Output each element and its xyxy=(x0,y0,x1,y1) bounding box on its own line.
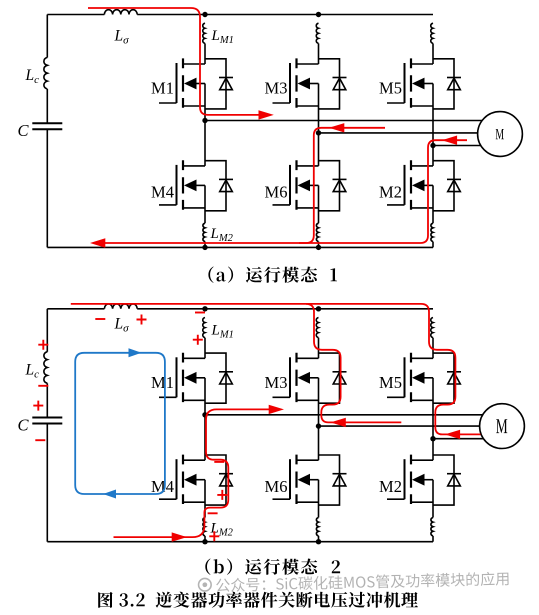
wire drain lead M3 (fig a) xyxy=(318,43,320,64)
mosfet M1 with body diode (fig b) xyxy=(159,353,233,404)
node bottom rail junction leg 1 (fig a) xyxy=(202,245,207,250)
wire source lead M6 to coil (fig a) xyxy=(318,185,320,223)
wire left rail lower segment (fig a) xyxy=(46,129,48,247)
parasitic inductor top of leg 2 (fig b) xyxy=(316,318,318,338)
mosfet M2 with body diode (fig a) xyxy=(387,160,461,211)
wire coil to bottom rail leg 2 (fig a) xyxy=(318,242,320,248)
label M5 (fig a) xyxy=(379,79,402,98)
wire coil to bottom rail leg 3 (fig b) xyxy=(432,536,434,542)
parasitic inductor bottom of leg 2 (fig b) xyxy=(316,518,318,536)
current arrow phase A pointing right (fig a) xyxy=(259,110,274,119)
wire top DC bus rail (fig a) xyxy=(47,14,433,16)
wire source lead M6 to coil (fig b) xyxy=(318,480,320,518)
wire source lead M4 to coil (fig b) xyxy=(204,480,206,518)
parasitic inductor top of leg 3 (fig b) xyxy=(431,318,433,338)
wire source lead M2 to coil (fig b) xyxy=(432,480,434,518)
wire drain lead M4 (fig b) xyxy=(204,415,206,460)
wire drain lead M1 (fig b) xyxy=(204,338,206,359)
parasitic inductor top of leg 2 (fig a) xyxy=(316,23,318,43)
parasitic inductor top of leg 3 (fig a) xyxy=(431,23,433,43)
label M5 (fig b) xyxy=(379,373,402,392)
node top rail junction leg 1 (fig b) xyxy=(202,306,207,311)
inductor L_M2 parasitic, leg 1 (fig a) xyxy=(203,223,234,244)
label M4 (fig b) xyxy=(151,477,174,496)
inductor L_sigma (fig a) xyxy=(104,10,137,47)
mosfet M3 with body diode (fig a) xyxy=(273,58,347,109)
polarity plus of C (fig b) xyxy=(33,401,43,411)
svg-text:M3: M3 xyxy=(265,79,288,98)
wire coil to bottom rail leg 2 (fig b) xyxy=(318,536,320,542)
node top rail junction leg 2 (fig a) xyxy=(316,12,321,17)
current arrow phase C pointing left (fig a) xyxy=(442,136,457,145)
polarity plus at M4 source (fig b) xyxy=(217,490,227,500)
current arrow phase A pointing right (fig b) xyxy=(269,405,284,414)
wire drain lead M5 (fig a) xyxy=(432,43,434,64)
label M1 (fig a) xyxy=(151,79,174,98)
node phase B junction (fig a) xyxy=(316,130,321,135)
wire coil to bottom rail leg 3 (fig a) xyxy=(432,242,434,248)
inductor Lc (fig a) xyxy=(25,57,48,89)
current path red: over top rail (fig b) xyxy=(71,303,421,305)
current arrow bottom rail pointing right (fig b) xyxy=(172,532,187,541)
wire source lead M3 to phase node (fig b) xyxy=(318,378,320,426)
parasitic inductor bottom of leg 2 (fig a) xyxy=(316,223,318,241)
svg-text:C: C xyxy=(17,415,29,434)
polarity minus of L_M1 (fig b) xyxy=(195,312,205,314)
label M6 (fig b) xyxy=(265,477,288,496)
svg-text:M4: M4 xyxy=(151,183,174,202)
mosfet M4 with body diode (fig b) xyxy=(159,455,233,506)
mosfet M2 with body diode (fig b) xyxy=(387,455,461,506)
mosfet M5 with body diode (fig a) xyxy=(387,58,461,109)
wire phase A to motor (fig a) xyxy=(205,120,482,122)
mosfet M5 with body diode (fig b) xyxy=(387,353,461,404)
current path red: up through M5 body diode from phase C (fig b) xyxy=(421,304,481,435)
current path red: bottom rail up through L_M2 and M4 body diode to phase A (fig b) xyxy=(114,409,271,537)
polarity minus of C (fig b) xyxy=(35,439,45,441)
wire left rail upper segment (fig b) xyxy=(46,309,48,352)
mosfet M4 with body diode (fig a) xyxy=(159,160,233,211)
current path red: phase B down leg2 to bottom rail (fig a) xyxy=(299,128,385,243)
polarity plus of L_M1 (fig b) xyxy=(193,335,203,345)
svg-text:M1: M1 xyxy=(151,79,174,98)
current arrow phase B pointing left (fig b) xyxy=(331,418,346,427)
polarity plus of L_sigma (fig b) xyxy=(137,315,147,325)
wire source lead M1 to phase node (fig b) xyxy=(204,378,206,415)
polarity minus of L_sigma (fig b) xyxy=(95,318,105,320)
wire drain lead M1 (fig a) xyxy=(204,43,206,64)
svg-text:M3: M3 xyxy=(265,373,288,392)
wire phase A to motor (fig b) xyxy=(205,414,483,416)
node bottom rail junction leg 2 (fig a) xyxy=(316,245,321,250)
node phase A junction (fig b) xyxy=(202,412,207,417)
label M2 (fig b) xyxy=(379,477,402,496)
polarity minus at M4 drain (fig b) xyxy=(214,461,224,463)
motor M (fig a) xyxy=(478,112,523,157)
wire drain lead M5 (fig b) xyxy=(432,338,434,359)
node bottom rail junction leg 2 (fig b) xyxy=(316,539,321,544)
label M6 (fig a) xyxy=(265,183,288,202)
parasitic inductor bottom of leg 3 (fig b) xyxy=(431,518,433,536)
label M3 (fig b) xyxy=(265,373,288,392)
wire bottom DC bus rail (fig a) xyxy=(47,246,433,248)
capacitor C (fig b) xyxy=(17,415,62,434)
inductor L_M1 parasitic, leg 1 (fig a) xyxy=(203,23,234,46)
label M1 (fig b) xyxy=(151,373,174,392)
wire coil to bottom rail leg 1 (fig b) xyxy=(204,536,206,542)
svg-text:M6: M6 xyxy=(265,477,288,496)
inductor L_M1 parasitic, leg 1 (fig b) xyxy=(203,318,234,341)
node top rail junction leg 2 (fig b) xyxy=(316,306,321,311)
current path red: up through M3 body diode from phase B (fig b) xyxy=(306,304,401,423)
wire source lead M3 to phase node (fig a) xyxy=(318,84,320,133)
wire coil to bottom rail leg 1 (fig a) xyxy=(204,242,206,248)
wire bottom DC bus rail (fig b) xyxy=(47,541,433,543)
mosfet M1 with body diode (fig a) xyxy=(159,58,233,109)
node phase A junction (fig a) xyxy=(202,118,207,123)
wire source lead M2 to coil (fig a) xyxy=(432,185,434,223)
svg-text:M2: M2 xyxy=(379,183,402,202)
inductor L_M2 parasitic, leg 1 (fig b) xyxy=(203,518,234,539)
current arrow phase C pointing left (fig b) xyxy=(445,430,460,439)
polarity minus of L_M2 (fig b) xyxy=(208,512,218,514)
blue loop arrow top pointing right (fig b) xyxy=(129,348,142,357)
svg-text:M6: M6 xyxy=(265,183,288,202)
watermark gray text with logo xyxy=(198,571,508,592)
mosfet M6 with body diode (fig b) xyxy=(273,455,347,506)
blue commutation loop (fig b) xyxy=(75,353,165,494)
motor M (fig b) xyxy=(480,404,525,449)
wire source lead M5 to phase node (fig a) xyxy=(432,84,434,146)
wire phase C to motor (fig a) xyxy=(433,145,481,147)
wire drain lead M3 (fig b) xyxy=(318,338,320,359)
wire phase B to motor (fig b) xyxy=(319,425,480,427)
wire drain lead M2 (fig b) xyxy=(432,439,434,461)
caption (b) yun xing mo tai 2 xyxy=(205,559,340,575)
current arrow phase B pointing left (fig a) xyxy=(329,123,344,132)
node bottom rail junction leg 1 (fig b) xyxy=(202,539,207,544)
inductor L_sigma (fig b) xyxy=(104,304,137,335)
caption (a) yun xing mo tai 1 xyxy=(208,267,337,283)
svg-text:M1: M1 xyxy=(151,373,174,392)
label M2 (fig a) xyxy=(379,183,402,202)
wire drain lead M6 (fig a) xyxy=(318,133,320,166)
wire left rail upper segment (fig a) xyxy=(46,15,48,58)
wire drain lead M6 (fig b) xyxy=(318,426,320,460)
capacitor C (fig a) xyxy=(17,121,62,140)
wire phase B to motor (fig a) xyxy=(319,132,478,134)
current path red: top rail into leg1 and out phase A (fig a) xyxy=(88,8,260,115)
svg-text:M5: M5 xyxy=(379,79,402,98)
current path red: phase C down leg3 and along bottom rail (fig a) xyxy=(94,140,467,243)
node phase C junction (fig a) xyxy=(430,143,435,148)
blue loop arrow bottom pointing left (fig b) xyxy=(103,490,116,499)
wire source lead M1 to phase node (fig a) xyxy=(204,84,206,121)
current arrow bottom rail pointing left (fig a) xyxy=(90,238,105,247)
wire drain lead M2 (fig a) xyxy=(432,146,434,166)
polarity plus of Lc (fig b) xyxy=(38,340,48,350)
parasitic inductor bottom of leg 3 (fig a) xyxy=(431,223,433,241)
wire drain lead M4 (fig a) xyxy=(204,121,206,166)
node phase B junction (fig b) xyxy=(316,423,321,428)
polarity plus of L_M2 (fig b) xyxy=(209,531,219,541)
wire left rail lower segment (fig b) xyxy=(46,424,48,542)
wire left rail middle segment (fig b) xyxy=(46,383,48,417)
inductor Lc (fig b) xyxy=(25,352,48,384)
caption figure 3.2 title xyxy=(98,592,418,608)
svg-text:M5: M5 xyxy=(379,373,402,392)
node top rail junction leg 1 (fig a) xyxy=(202,12,207,17)
wire left rail middle segment (fig a) xyxy=(46,89,48,123)
mosfet M6 with body diode (fig a) xyxy=(273,160,347,211)
wire top DC bus rail (fig b) xyxy=(47,308,433,310)
label M4 (fig a) xyxy=(151,183,174,202)
wire phase C to motor (fig b) xyxy=(433,438,483,440)
polarity minus of Lc (fig b) xyxy=(38,385,48,387)
node phase C junction (fig b) xyxy=(430,436,435,441)
svg-text:C: C xyxy=(17,121,29,140)
label M3 (fig a) xyxy=(265,79,288,98)
mosfet M3 with body diode (fig b) xyxy=(273,353,347,404)
wire source lead M4 to coil (fig a) xyxy=(204,185,206,223)
wire source lead M5 to phase node (fig b) xyxy=(432,378,434,439)
svg-text:M2: M2 xyxy=(379,477,402,496)
